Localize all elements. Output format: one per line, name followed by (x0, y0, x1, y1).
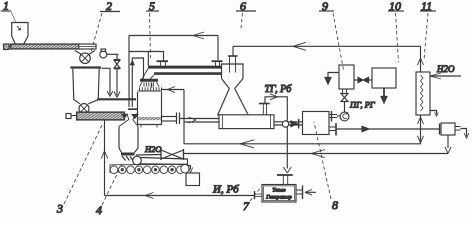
TG,Rb vapour line (265, 94, 291, 173)
drag conveyor trough (133, 156, 188, 165)
bin vent pipe (102, 68, 113, 96)
label 5 (146, 0, 159, 58)
big hopper (119, 127, 138, 161)
ash box (186, 166, 200, 186)
chain conveyor rollers (110, 164, 189, 173)
drum feed pipe (180, 117, 220, 123)
horizontal duct (142, 67, 222, 79)
riser stub above duct left end (147, 52, 149, 66)
line I,Rb bottom return (105, 193, 255, 199)
scrubber downcomer (418, 115, 424, 144)
label 4 (96, 164, 122, 217)
hopper to valve line (136, 154, 161, 157)
screw conveyor 1 drive motor (4, 44, 13, 50)
label 10 (388, 0, 404, 62)
parallel return pipe near reactor (131, 58, 144, 107)
label 9 (319, 0, 344, 70)
reactor bottom outlet (162, 113, 180, 125)
drum top nozzle (259, 104, 270, 116)
svg-text:ПГ, РГ: ПГ, РГ (349, 100, 376, 110)
line 1 recycle from scrubber (184, 140, 421, 148)
label 11 (420, 0, 436, 60)
furnace box (303, 112, 330, 135)
reactor top feed line (161, 87, 184, 93)
feed hopper 1 (12, 23, 28, 45)
svg-text:3: 3 (56, 202, 63, 216)
label 1 (1, 0, 16, 22)
fan (329, 111, 349, 122)
label 7 (243, 187, 261, 213)
rotary valve V2 (79, 104, 89, 114)
duct flange F1 (157, 61, 169, 66)
funnel under conveyor 1 right end (75, 51, 95, 55)
cyclone body (222, 64, 244, 79)
water valve (161, 149, 184, 160)
label 6 (236, 0, 256, 28)
svg-text:4: 4 (96, 203, 102, 217)
reactor body (138, 92, 162, 128)
line B to duct flange (129, 52, 164, 61)
svg-text:Тепло: Тепло (272, 188, 286, 194)
svg-text:Генератор: Генератор (265, 195, 292, 201)
scrubber column (416, 72, 430, 115)
reactor top flange (140, 79, 158, 82)
reactor recycle downcomer (183, 90, 185, 144)
screw conveyor 1 (11, 44, 97, 49)
svg-text:ТГ, Рб: ТГ, Рб (265, 84, 293, 95)
duct flange F2 (212, 61, 223, 66)
line 2 water line (184, 150, 449, 158)
svg-text:7: 7 (243, 199, 250, 213)
line C to scrubber (233, 42, 424, 72)
screw conveyor 2 shaft bracket (66, 114, 77, 119)
exchange arrows between boxes (354, 77, 372, 82)
furnace outlet line to scrubber (329, 123, 440, 136)
PG valve (341, 90, 348, 113)
svg-text:Н2О: Н2О (436, 64, 455, 74)
label 2 (91, 0, 120, 52)
condenser box 3r (440, 123, 469, 154)
rotary valve V1 (80, 53, 91, 64)
heat generator right inlet (296, 186, 316, 200)
svg-text:8: 8 (332, 198, 338, 212)
heat recovery box 9 (325, 65, 354, 89)
vent pipe down with valve (114, 54, 120, 97)
heat generator box (262, 185, 296, 203)
scrubber bottom drain (430, 111, 438, 117)
label 3 (56, 123, 103, 216)
svg-text:Н2О: Н2О (144, 144, 162, 154)
drying drum (219, 115, 274, 129)
venturi section (218, 79, 249, 116)
collector bar above conveyor 2 (97, 98, 136, 100)
label 8 (314, 122, 338, 212)
recycle gas riser from conveyor 2 (101, 121, 107, 196)
svg-text:И, Рб: И, Рб (212, 184, 239, 196)
cyclone outlet tube (228, 46, 238, 72)
line A upper recycle (129, 32, 218, 107)
reactor inner nozzle (151, 83, 153, 88)
screw conveyor 2 (77, 112, 125, 120)
box 10 (372, 68, 396, 103)
TG,Rb flange into heat generator (277, 175, 293, 185)
reactor dome tick ring 2 (138, 87, 163, 91)
pipe 2 bottom flange and boot valve (119, 109, 138, 126)
drum to furnace pipe (274, 119, 303, 129)
label H2O right (430, 64, 461, 79)
heat generator left stub (255, 191, 263, 199)
bin vessel 2 (70, 68, 101, 104)
reactor dome tick ring 1 (140, 82, 160, 87)
vent device circle (100, 49, 119, 58)
